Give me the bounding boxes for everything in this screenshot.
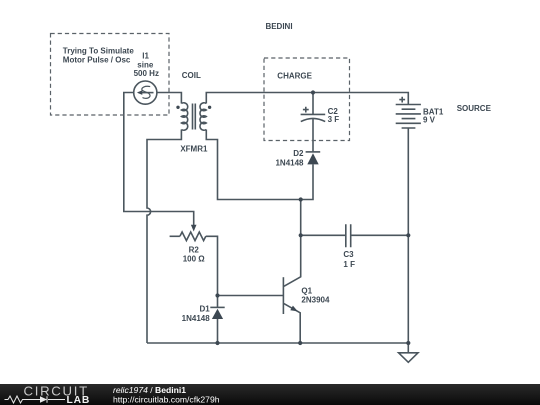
current source I1 arrowhead bbox=[137, 90, 142, 95]
svg-text:Motor Pulse / Osc: Motor Pulse / Osc bbox=[63, 56, 131, 65]
resistor R2 left stub terminal bbox=[170, 235, 180, 237]
diode D1 triangle bbox=[212, 309, 223, 319]
wire D1 anode node down to cathode bar bbox=[217, 296, 219, 308]
wire XFMR1 primary bottom down-left to ground rail (hops over wiper wire) bbox=[147, 130, 181, 344]
svg-text:BEDINI: BEDINI bbox=[265, 22, 292, 31]
svg-text:Trying To Simulate: Trying To Simulate bbox=[63, 46, 135, 55]
wire R2 right lead down to base node bbox=[206, 236, 218, 295]
junction dot base/D1 node bbox=[215, 293, 219, 297]
svg-text:D2: D2 bbox=[293, 149, 304, 158]
diode D2 cathode bar bbox=[306, 151, 321, 153]
current source I1 circle bbox=[134, 81, 157, 104]
svg-text:1N4148: 1N4148 bbox=[275, 158, 304, 167]
svg-text:COIL: COIL bbox=[182, 71, 201, 80]
svg-text:SOURCE: SOURCE bbox=[457, 104, 492, 113]
svg-text:2N3904: 2N3904 bbox=[301, 296, 330, 305]
battery BAT1 plates bbox=[396, 105, 421, 129]
wire collector node down to Q1 collector bbox=[284, 200, 301, 287]
wire I1 left terminal to potentiometer wiper bbox=[124, 93, 194, 226]
dashed annotation box "Trying To Simulate Motor Pulse / Osc" bbox=[51, 34, 170, 116]
battery BAT1 plus sign bbox=[399, 97, 405, 103]
svg-text:100 Ω: 100 Ω bbox=[183, 254, 206, 263]
current source I1 arrow line bbox=[139, 92, 154, 94]
junction dot C3 left bbox=[299, 233, 303, 237]
svg-text:LAB: LAB bbox=[67, 395, 91, 405]
capacitor C2 plus sign bbox=[303, 107, 309, 113]
wire node C2 top from rail bbox=[312, 93, 314, 115]
svg-text:1N4148: 1N4148 bbox=[182, 314, 211, 323]
transformer XFMR1 secondary winding bbox=[200, 103, 206, 131]
junction dot C3 right bbox=[406, 233, 410, 237]
svg-text:http://circuitlab.com/cfk279h: http://circuitlab.com/cfk279h bbox=[113, 395, 220, 405]
footer bar bbox=[0, 384, 540, 405]
current source I1 sine squiggle bbox=[142, 86, 150, 98]
junction dot collector node bbox=[299, 197, 303, 201]
wire ground stub bbox=[407, 343, 409, 353]
junction dot battery ground rail bbox=[406, 341, 410, 345]
CircuitLab logo diode triangle bbox=[40, 396, 47, 403]
junction dot C2/top rail bbox=[311, 90, 315, 94]
svg-text:CHARGE: CHARGE bbox=[277, 72, 312, 81]
capacitor C2 plates bbox=[301, 113, 326, 115]
junction dot emitter ground rail bbox=[298, 341, 302, 345]
wire ground rail (bottom) bbox=[147, 342, 408, 344]
capacitor C3 plates bbox=[346, 224, 351, 247]
wire I1 right terminal to XFMR1 primary top bbox=[157, 93, 182, 104]
svg-text:XFMR1: XFMR1 bbox=[180, 144, 208, 153]
wire battery negative down to ground rail bbox=[407, 128, 409, 343]
svg-text:9 V: 9 V bbox=[423, 116, 436, 125]
svg-text:I1: I1 bbox=[142, 52, 149, 61]
resistor R2 zigzag body bbox=[180, 232, 206, 241]
potentiometer R2 wiper arrowhead bbox=[191, 225, 197, 232]
transistor Q1 emitter diagonal and down to ground rail bbox=[284, 304, 300, 343]
svg-text:D1: D1 bbox=[199, 304, 210, 313]
diode D2 triangle bbox=[307, 153, 318, 164]
transformer XFMR1 primary winding bbox=[181, 103, 187, 131]
svg-text:R2: R2 bbox=[189, 245, 200, 254]
ground symbol triangle bbox=[399, 353, 418, 363]
transformer XFMR1 primary phasing dot bbox=[176, 106, 179, 109]
transformer XFMR1 core bbox=[193, 104, 196, 130]
wire C3 left from collector node bbox=[301, 234, 346, 236]
svg-text:3 F: 3 F bbox=[328, 115, 340, 124]
transformer XFMR1 secondary phasing dot bbox=[208, 106, 211, 109]
diode D1 cathode bar bbox=[210, 306, 224, 308]
CircuitLab logo schematic squiggle (resistor + diode) bbox=[5, 396, 66, 403]
svg-text:500 Hz: 500 Hz bbox=[134, 69, 159, 78]
transistor Q1 base bar bbox=[282, 277, 284, 314]
svg-text:Q1: Q1 bbox=[301, 286, 312, 295]
transistor Q1 emitter arrowhead bbox=[290, 306, 298, 312]
dashed annotation box CHARGE bbox=[264, 58, 350, 141]
junction dot D1 ground rail bbox=[215, 341, 219, 345]
svg-text:1 F: 1 F bbox=[343, 260, 355, 269]
wire D1 bottom to ground rail bbox=[217, 319, 219, 343]
wire Q1 base to node bbox=[218, 295, 284, 297]
wire XFMR1 secondary top to top rail and battery positive bbox=[206, 93, 408, 105]
svg-text:C3: C3 bbox=[343, 250, 354, 259]
wire C2 bottom to D2 cathode bbox=[312, 119, 314, 152]
wire C3 right to battery negative wire bbox=[351, 234, 409, 236]
wire XFMR1 secondary bottom to D2 anode node bbox=[206, 130, 313, 200]
